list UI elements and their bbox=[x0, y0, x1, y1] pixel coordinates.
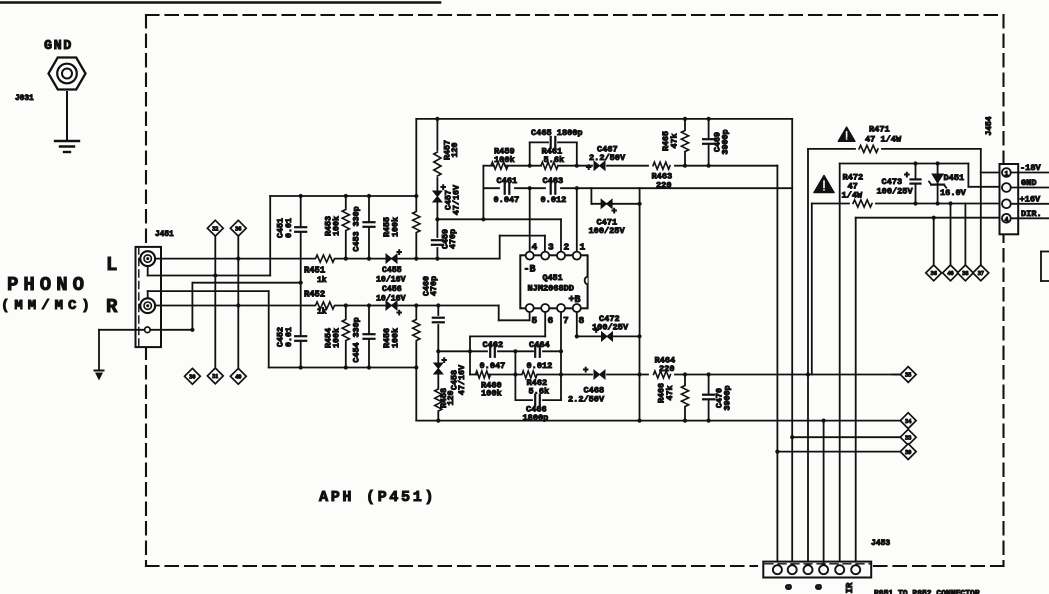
test point 30 bbox=[185, 368, 201, 384]
wire TP39 line bbox=[777, 451, 900, 453]
wire R463 corner drop (to J453 pin1) bbox=[776, 165, 779, 167]
node bus/R457 column bbox=[435, 117, 439, 121]
node TP32 on shield wire bbox=[213, 273, 217, 277]
wire C462/C464 line bbox=[438, 350, 487, 352]
pin 1 circle bbox=[573, 252, 581, 260]
svg-text:16.0V: 16.0V bbox=[940, 188, 967, 198]
wire M vertical bbox=[514, 351, 516, 400]
svg-text:+: + bbox=[397, 248, 402, 258]
capacitor C470 wire bbox=[708, 375, 710, 421]
wire upper ground rail bbox=[270, 195, 416, 197]
svg-text:+16V: +16V bbox=[1020, 194, 1041, 204]
wire TP36b drop bbox=[933, 218, 935, 266]
GND terminal nut (hexagon) bbox=[49, 58, 86, 90]
node rail2/R454 bbox=[344, 365, 348, 369]
node C463 right (pin1 branch) bbox=[575, 186, 579, 190]
capacitor C452 bbox=[298, 336, 304, 341]
wire L1 vertical bbox=[469, 351, 471, 374]
wire chassis ground drop bbox=[98, 330, 100, 371]
node rail/R453 bbox=[344, 194, 348, 198]
capacitor C470 bbox=[706, 395, 712, 400]
wire R460/R462/C468 line bbox=[470, 374, 477, 376]
svg-text:100k: 100k bbox=[494, 155, 515, 165]
svg-text:D451: D451 bbox=[944, 173, 965, 183]
resistor R451 bbox=[315, 254, 335, 263]
svg-text:PHONO: PHONO bbox=[7, 274, 89, 296]
wire top bus right drop (to J453 pin2) bbox=[791, 119, 793, 563]
node pin8/C472 line bbox=[575, 334, 579, 338]
resistor R464 bbox=[654, 371, 671, 378]
wire top bus bbox=[416, 118, 792, 120]
svg-text:100/25V: 100/25V bbox=[592, 323, 629, 333]
svg-text:J031: J031 bbox=[15, 95, 34, 103]
svg-text:31: 31 bbox=[212, 373, 218, 380]
svg-text:2: 2 bbox=[564, 242, 570, 253]
warning triangle (R472) bbox=[814, 176, 834, 193]
resistor R466 bbox=[684, 375, 686, 386]
wire R472 line (+16V) bbox=[812, 203, 849, 205]
node L signal/C459 bbox=[435, 257, 439, 261]
wire GND terminal to ground bbox=[66, 92, 68, 141]
resistor R461 bbox=[541, 162, 558, 169]
node A1/pin2 line bbox=[481, 217, 485, 221]
svg-text:36: 36 bbox=[235, 225, 241, 232]
svg-text:C462: C462 bbox=[483, 340, 504, 350]
svg-text:39: 39 bbox=[905, 449, 911, 456]
test point 36 (power row) bbox=[926, 265, 942, 281]
node C471/output column bbox=[638, 202, 642, 206]
wire node A1 vertical bbox=[482, 166, 484, 220]
wire L signal (jack L to pin3 jog) bbox=[155, 258, 500, 260]
wire pin8 drop bbox=[576, 312, 578, 336]
resistor R463 bbox=[653, 162, 670, 169]
svg-text:R: R bbox=[106, 296, 118, 318]
node R462/Rt bbox=[559, 372, 563, 376]
svg-text:47/16V: 47/16V bbox=[452, 184, 462, 215]
wire center ground rail bbox=[416, 420, 900, 422]
svg-text:38: 38 bbox=[962, 270, 968, 277]
svg-text:2.2/50V: 2.2/50V bbox=[568, 395, 605, 405]
node R461/C465 right bbox=[575, 164, 579, 168]
wire C471-to-C472 column bbox=[639, 188, 641, 336]
wire -18V TP drop bbox=[980, 173, 982, 266]
svg-text:1k: 1k bbox=[317, 276, 327, 285]
pin 4 circle bbox=[526, 252, 534, 260]
wire C472 line bbox=[577, 335, 601, 337]
partial box right of border bbox=[1041, 251, 1049, 253]
node pin6/C462 left bbox=[468, 349, 472, 353]
svg-text:+: + bbox=[442, 356, 447, 366]
capacitor C454 wire bbox=[368, 306, 370, 368]
J453 inner dashed line bbox=[765, 563, 870, 565]
test point 40 (power row) bbox=[943, 265, 959, 281]
node rail/C453 bbox=[367, 194, 371, 198]
ground symbol bbox=[55, 140, 79, 142]
svg-text:4: 4 bbox=[1004, 216, 1008, 223]
node +16V/D451 bbox=[936, 201, 940, 205]
capacitor C469 bbox=[706, 139, 712, 144]
node R459R461/C465 left bbox=[528, 164, 532, 168]
pin 7 circle bbox=[557, 304, 565, 312]
node output column/C472 bbox=[637, 334, 641, 338]
svg-text:10/16V: 10/16V bbox=[376, 275, 406, 285]
resistor R458 bbox=[435, 389, 442, 411]
wire R471 line bbox=[808, 148, 855, 150]
resistor R453 bbox=[345, 196, 347, 208]
wire DIR drop (to J453 pin6) bbox=[855, 218, 857, 564]
resistor R455 bbox=[415, 196, 417, 210]
node TP36 on L signal bbox=[236, 257, 240, 261]
J453 pin1 circle bbox=[773, 565, 782, 574]
capacitor C461 bbox=[505, 185, 510, 191]
jack L pin bbox=[146, 257, 149, 260]
GND terminal ring bbox=[57, 64, 77, 84]
svg-text:C456: C456 bbox=[382, 285, 402, 294]
node C451/C452 mid bbox=[299, 281, 303, 285]
J454 pin3 circle bbox=[1002, 199, 1011, 208]
svg-text:100/25V: 100/25V bbox=[589, 226, 626, 236]
svg-text:100k: 100k bbox=[391, 217, 401, 237]
svg-text:C455: C455 bbox=[382, 266, 402, 275]
svg-text:470p: 470p bbox=[448, 229, 458, 249]
svg-text:120: 120 bbox=[450, 142, 460, 157]
wire -18V into J454 pin1 bbox=[980, 149, 982, 173]
svg-text:(MM/MC): (MM/MC) bbox=[1, 298, 95, 314]
node rail/R455 bbox=[414, 194, 418, 198]
resistor R465 bbox=[684, 119, 686, 130]
C460/C458/R458 column wire bbox=[437, 306, 439, 316]
svg-text:IR: IR bbox=[845, 582, 855, 593]
svg-text:100k: 100k bbox=[332, 328, 342, 348]
wire TP32 drop bbox=[214, 236, 216, 368]
connector J451 body bbox=[136, 247, 162, 347]
svg-text:+B: +B bbox=[569, 295, 581, 306]
svg-text:APH (P451): APH (P451) bbox=[319, 488, 436, 506]
resistor R472 bbox=[853, 200, 872, 207]
svg-text:33: 33 bbox=[905, 434, 911, 441]
svg-text:Q451: Q451 bbox=[543, 273, 563, 283]
svg-text:GND: GND bbox=[44, 39, 73, 54]
svg-text:+: + bbox=[586, 163, 591, 173]
capacitor C473 bbox=[913, 179, 919, 183]
svg-text:35: 35 bbox=[905, 372, 911, 379]
svg-text:1: 1 bbox=[580, 242, 586, 253]
wire jack L shield bbox=[147, 266, 149, 276]
wire TP40b drop bbox=[950, 204, 952, 266]
test point 36 bbox=[230, 220, 246, 236]
svg-text:DIR.: DIR. bbox=[1021, 209, 1042, 219]
node R463 net / TP39 line bbox=[775, 450, 779, 454]
wire C471 branch bbox=[590, 188, 592, 204]
resistor R457 bbox=[434, 152, 441, 176]
svg-text:NJM2068DD: NJM2068DD bbox=[528, 284, 574, 294]
node rail/J453 pin4 bbox=[822, 419, 826, 423]
svg-text:J453: J453 bbox=[871, 539, 890, 548]
svg-text:1k: 1k bbox=[317, 308, 327, 317]
wire R472 drop bbox=[811, 204, 813, 375]
test point 35 bbox=[900, 367, 916, 383]
pin 8 circle bbox=[573, 304, 581, 312]
svg-text:6: 6 bbox=[548, 315, 554, 326]
test point 32 bbox=[207, 220, 223, 236]
zener D451 bbox=[931, 174, 944, 185]
svg-text:0.047: 0.047 bbox=[494, 195, 520, 205]
wire TP36 drop bbox=[237, 236, 239, 368]
node DIR/TP37 drop bbox=[932, 216, 936, 220]
svg-text:47k: 47k bbox=[670, 133, 680, 148]
capacitor C463 bbox=[551, 185, 556, 191]
op-amp Q451 body bbox=[520, 255, 587, 308]
svg-text:L: L bbox=[106, 254, 117, 276]
svg-text:C454 330p: C454 330p bbox=[352, 317, 362, 362]
capacitor C465 bbox=[551, 139, 556, 145]
svg-text:3900p: 3900p bbox=[723, 385, 733, 410]
node R signal/R454 bbox=[344, 303, 348, 307]
test point 38 (power row) bbox=[958, 265, 974, 281]
svg-text:GND: GND bbox=[1021, 178, 1036, 188]
pin 5 circle bbox=[526, 304, 534, 312]
wire GND left drop (to J453 pin5) bbox=[839, 164, 841, 564]
wire top bus left drop bbox=[415, 119, 417, 196]
J454 pin1 circle bbox=[1002, 168, 1011, 177]
node C462/C464 mid bbox=[513, 349, 517, 353]
R457/C457/C459 column wire bbox=[436, 119, 438, 150]
svg-text:-18V: -18V bbox=[1020, 163, 1041, 173]
svg-text:-B: -B bbox=[524, 265, 536, 276]
node C458/C462 line bbox=[436, 349, 440, 353]
svg-text:47 1/4W: 47 1/4W bbox=[865, 135, 902, 145]
svg-text:3900p: 3900p bbox=[721, 129, 731, 154]
svg-text:0.01: 0.01 bbox=[284, 218, 294, 238]
svg-text:C473: C473 bbox=[882, 177, 903, 187]
node +16V/TP40b bbox=[948, 201, 952, 205]
J453 pin6 circle bbox=[851, 565, 860, 574]
svg-text:P851 TO P852 CONNECTOR: P851 TO P852 CONNECTOR bbox=[874, 590, 980, 594]
wire TP33 line bbox=[792, 436, 900, 438]
node rail/output column bbox=[637, 419, 641, 423]
warning triangle (R471) bbox=[838, 127, 855, 141]
capacitor C457 (electrolytic) bbox=[433, 191, 442, 202]
J453 pin4 circle bbox=[819, 565, 828, 574]
capacitor C453 bbox=[366, 222, 372, 227]
node R463/R465 bbox=[683, 164, 687, 168]
capacitor C456 bbox=[386, 301, 397, 310]
J454 pin2 circle bbox=[1002, 183, 1011, 192]
svg-text:0.01: 0.01 bbox=[284, 327, 294, 347]
wire pin6 line bbox=[544, 312, 546, 336]
op-amp notch bbox=[585, 277, 588, 285]
resistor R471 bbox=[859, 145, 878, 152]
capacitor C462 bbox=[490, 348, 495, 354]
wire -18V stub bbox=[1011, 172, 1049, 174]
capacitor C467 (electrolytic) bbox=[594, 161, 605, 170]
wire GND stub bbox=[1011, 187, 1049, 189]
node R signal/R456 bbox=[414, 303, 418, 307]
capacitor C466 bbox=[535, 397, 540, 403]
capacitor C465 loop bbox=[529, 142, 531, 165]
connector J454 body bbox=[1000, 164, 1019, 234]
svg-text:C465 1800p: C465 1800p bbox=[531, 128, 583, 138]
node R463/C469 bbox=[707, 164, 711, 168]
capacitor C471 (electrolytic) bbox=[601, 199, 612, 208]
connector J453 body bbox=[763, 562, 871, 578]
jack R pin bbox=[146, 304, 149, 307]
node output/R466 bbox=[683, 372, 687, 376]
node C461/C463 mid (pin4 branch) bbox=[528, 186, 532, 190]
svg-text:100k: 100k bbox=[481, 389, 502, 399]
wire GND TP drop bbox=[964, 204, 966, 266]
board border (dashed) bottom-left segment bbox=[146, 565, 757, 567]
capacitor C459 bbox=[434, 240, 440, 245]
svg-text:C453 330p: C453 330p bbox=[352, 206, 362, 251]
wire pin2 line bbox=[437, 218, 561, 220]
svg-text:0.012: 0.012 bbox=[527, 361, 553, 371]
svg-text:220: 220 bbox=[659, 364, 674, 374]
resistor R454 bbox=[345, 306, 347, 319]
svg-text:4: 4 bbox=[532, 242, 538, 253]
node TP36 on R signal bbox=[236, 303, 240, 307]
node GND/D451 bbox=[936, 161, 940, 165]
svg-text:C464: C464 bbox=[529, 340, 550, 350]
svg-text:37: 37 bbox=[978, 270, 984, 277]
node L signal/R455 bbox=[414, 257, 418, 261]
capacitor C466 loop bbox=[515, 399, 532, 401]
svg-text:32: 32 bbox=[212, 225, 218, 232]
test point 31 bbox=[207, 368, 223, 384]
node rail2/C454 bbox=[367, 365, 371, 369]
svg-text:+: + bbox=[904, 170, 910, 181]
wire J451 ground lug run bbox=[99, 329, 145, 331]
node output/C470 bbox=[707, 372, 711, 376]
svg-text:J454: J454 bbox=[985, 116, 994, 135]
board border (dashed) left bbox=[145, 15, 147, 566]
jack R outer bbox=[140, 298, 155, 313]
capacitor C473 wire bbox=[915, 164, 917, 204]
svg-text:36: 36 bbox=[931, 270, 937, 277]
svg-text:34: 34 bbox=[905, 418, 911, 425]
wire R signal (jack R to pin5 jog) bbox=[155, 305, 499, 307]
wire jack R shield bbox=[147, 291, 149, 298]
resistor R456 bbox=[415, 306, 417, 319]
svg-text:2.2/50V: 2.2/50V bbox=[589, 153, 626, 163]
capacitor C472 (electrolytic) bbox=[602, 332, 613, 341]
wire pin1 drop bbox=[576, 188, 578, 251]
svg-text:1/4W: 1/4W bbox=[842, 191, 863, 201]
wire C451/C452 column bbox=[300, 196, 302, 368]
wire R459/R461 line bbox=[483, 165, 494, 167]
svg-text:30: 30 bbox=[189, 374, 195, 381]
node ground lug / TP30 branch bbox=[190, 328, 194, 332]
node rail/R466 bbox=[683, 419, 687, 423]
pin 6 circle bbox=[541, 304, 549, 312]
test point 37 (power row) bbox=[973, 265, 989, 281]
svg-text:47k: 47k bbox=[665, 385, 675, 400]
pin 3 circle bbox=[541, 252, 549, 260]
jack L inner bbox=[144, 255, 151, 262]
svg-text:470p: 470p bbox=[429, 276, 439, 296]
board border (dashed) top bbox=[146, 14, 1004, 16]
wire GND net top line bbox=[840, 163, 969, 165]
svg-text:100/25V: 100/25V bbox=[877, 187, 914, 197]
chassis ground arrow bbox=[95, 370, 104, 372]
J454 pin4 circle bbox=[1002, 214, 1011, 223]
wire R471 drop (to J453 pin3) bbox=[807, 149, 809, 563]
J453 pin3 circle bbox=[804, 565, 813, 574]
node C468/output column bbox=[637, 372, 641, 376]
capacitor C453 wire bbox=[368, 196, 370, 259]
svg-text:C463: C463 bbox=[543, 176, 564, 186]
wire +16V stub bbox=[1011, 203, 1049, 205]
board border (dashed) bottom-right segment bbox=[874, 565, 1004, 567]
svg-text:47/16V: 47/16V bbox=[457, 364, 467, 395]
J453 pin5 circle bbox=[835, 565, 844, 574]
J453 pin2 circle bbox=[788, 565, 797, 574]
svg-text:8: 8 bbox=[579, 315, 585, 326]
svg-text:100k: 100k bbox=[391, 328, 401, 348]
svg-text:G: G bbox=[814, 584, 825, 590]
node R460/M bbox=[513, 372, 517, 376]
board border (dashed) right bbox=[1002, 15, 1004, 566]
node rail/C470 bbox=[707, 419, 711, 423]
node bus/C469 bbox=[707, 117, 711, 121]
svg-text:40: 40 bbox=[947, 270, 953, 277]
wire C461/C463 line bbox=[483, 187, 499, 189]
capacitor C460 bbox=[435, 318, 441, 323]
jack L outer bbox=[140, 251, 155, 266]
svg-text:10/16V: 10/16V bbox=[376, 294, 406, 304]
svg-text:0.047: 0.047 bbox=[480, 361, 506, 371]
wire pin4 drop bbox=[529, 188, 531, 251]
svg-text:G: G bbox=[784, 584, 795, 590]
svg-text:+: + bbox=[583, 366, 588, 376]
jack R inner bbox=[144, 302, 151, 309]
svg-text:100k: 100k bbox=[332, 216, 342, 236]
node L signal/R453 bbox=[344, 257, 348, 261]
resistor R459 bbox=[491, 162, 508, 169]
node rail2/R456 bbox=[414, 365, 418, 369]
resistor R452 bbox=[315, 301, 335, 310]
J451 ground lug bbox=[145, 327, 151, 333]
wire lower ground rail bbox=[269, 367, 417, 369]
capacitor C464 bbox=[535, 348, 540, 354]
node GND/C473 bbox=[913, 161, 917, 165]
scan edge line (top) bbox=[0, 1, 440, 4]
node bus/R465 bbox=[683, 117, 687, 121]
capacitor C458 (electrolytic) bbox=[434, 363, 443, 374]
svg-text:5: 5 bbox=[532, 315, 538, 326]
test point 33 bbox=[900, 429, 916, 445]
GND terminal hole bbox=[62, 69, 72, 79]
capacitor C469 wire bbox=[708, 119, 710, 166]
node L signal/C453 bbox=[367, 257, 371, 261]
capacitor C468 (electrolytic) bbox=[594, 370, 605, 379]
node rail/R458 bbox=[436, 419, 440, 423]
wire R455 column to bottom rail join bbox=[415, 368, 417, 421]
svg-text:C461: C461 bbox=[497, 176, 518, 186]
svg-text:R452: R452 bbox=[304, 290, 325, 300]
svg-text:3: 3 bbox=[548, 242, 554, 253]
svg-text:0.012: 0.012 bbox=[541, 195, 567, 205]
node R signal/C454 bbox=[367, 303, 371, 307]
svg-text:+: + bbox=[612, 207, 617, 217]
svg-text:+: + bbox=[397, 309, 402, 319]
svg-text:R471: R471 bbox=[869, 125, 890, 135]
svg-text:R451: R451 bbox=[304, 266, 325, 276]
svg-text:J451: J451 bbox=[155, 231, 174, 239]
wire DIR stub bbox=[1011, 217, 1049, 219]
node rail2/C452 bbox=[299, 365, 303, 369]
wire pin7 drop bbox=[560, 312, 562, 351]
